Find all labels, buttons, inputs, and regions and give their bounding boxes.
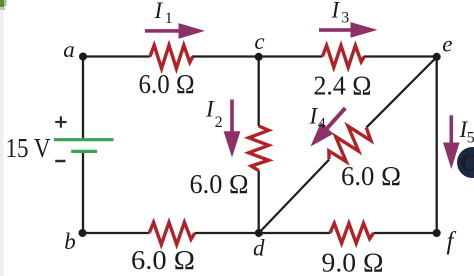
battery 15V positive plate (54, 138, 114, 141)
left edge gray strip (0, 6, 4, 276)
svg-text:I: I (331, 0, 341, 23)
watermark logo circle (bottom right, clipped) (457, 147, 474, 178)
svg-text:5: 5 (467, 129, 474, 146)
top-left green corner mark (0, 0, 4, 7)
node e (433, 53, 441, 61)
resistor R4 6.0 ohm (e-d diagonal) (321, 118, 375, 169)
node c (255, 53, 263, 61)
svg-text:6.0 Ω: 6.0 Ω (131, 245, 195, 275)
current arrow I5 (443, 115, 460, 169)
svg-text:6.0 Ω: 6.0 Ω (341, 161, 401, 191)
battery 15V negative plate (71, 150, 97, 153)
wire c-R3 (259, 55, 323, 57)
wire R4-d diagonal (259, 160, 329, 234)
current arrow I2 (224, 100, 241, 158)
svg-text:4: 4 (318, 115, 326, 132)
wire battery-b (82, 151, 84, 233)
svg-text:3: 3 (341, 9, 349, 26)
svg-text:2: 2 (215, 114, 223, 131)
svg-text:c: c (254, 29, 264, 54)
svg-text:I: I (205, 97, 215, 122)
resistor R5 6.0 ohm (b-d) (149, 222, 195, 244)
svg-text:a: a (63, 37, 75, 62)
node b (79, 229, 87, 237)
wire R3-e (364, 55, 437, 57)
svg-text:9.0 Ω: 9.0 Ω (322, 248, 384, 276)
resistor R3 2.4 ohm (c-e) (323, 46, 365, 68)
svg-text:C: C (460, 151, 474, 176)
wire R2-d (258, 171, 260, 234)
current arrow I4 (311, 107, 347, 147)
wire R5-d-R6 (195, 232, 330, 234)
battery plus sign (55, 116, 66, 127)
wire c-R2 (258, 57, 260, 127)
resistor R2 6.0 ohm (c-d vertical) (249, 126, 269, 171)
svg-text:e: e (442, 32, 452, 57)
resistor R1 6.0 ohm (a-c) (150, 45, 193, 68)
current arrow I3 (319, 22, 378, 38)
wire R1-c (192, 55, 259, 57)
svg-text:b: b (64, 229, 76, 254)
wire R6-f (374, 232, 437, 234)
svg-text:15 V: 15 V (6, 133, 51, 163)
resistor R6 9.0 ohm (d-f) (330, 223, 374, 243)
wire e-f right vertical (436, 57, 438, 234)
current arrow I1 (145, 23, 205, 39)
svg-text:d: d (253, 235, 265, 260)
wire a-c top left (83, 55, 150, 57)
wire b-R5 (83, 232, 150, 234)
node f (433, 229, 441, 237)
svg-text:1: 1 (165, 10, 173, 27)
svg-text:6.0 Ω: 6.0 Ω (190, 169, 249, 199)
svg-text:6.0 Ω: 6.0 Ω (139, 69, 195, 99)
svg-text:2.4 Ω: 2.4 Ω (314, 71, 372, 101)
svg-text:I: I (154, 0, 164, 23)
battery minus sign (55, 160, 65, 163)
wire a-battery (82, 57, 84, 140)
node a (79, 53, 87, 61)
node d (255, 229, 263, 237)
wire diagonal e-R4 (366, 57, 436, 128)
